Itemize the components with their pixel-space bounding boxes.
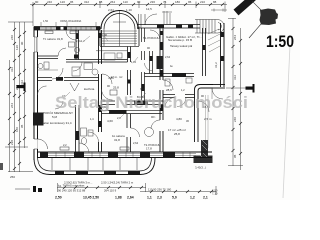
svg-text:hol: hol [140,87,144,91]
svg-text:1,1: 1,1 [147,196,152,200]
svg-text:2,3: 2,3 [157,196,162,200]
terrace edge dark segments [55,171,140,175]
bottom tiny text rows [58,181,218,196]
stairs inside bay [100,31,139,47]
svg-text:31,8: 31,8 [114,138,120,142]
interior vertical wall x161 [160,29,163,153]
svg-text:264: 264 [233,35,237,40]
interior vertical wall x77 lower [76,105,80,152]
svg-text:2,64: 2,64 [133,141,139,145]
svg-text:2,0x1,2: 2,0x1,2 [76,39,85,43]
interior vertical wall x142 upper [142,28,145,101]
svg-text:90: 90 [20,41,24,45]
svg-text:7,10: 7,10 [212,192,218,196]
svg-text:240: 240 [47,0,52,4]
short ticks above right wall [162,11,172,24]
svg-text:90: 90 [35,0,39,4]
stub dim line above stairs [211,9,227,12]
svg-text:312: 312 [233,75,237,80]
svg-text:Tł. salonu 31,8: Tł. salonu 31,8 [43,37,63,41]
dark stamp blob [260,9,279,26]
svg-text:2,50: 2,50 [55,196,62,200]
left wall window [33,37,37,52]
svg-text:75: 75 [163,0,167,4]
svg-text:17,8: 17,8 [146,147,152,151]
chimney block on left wall [33,113,44,126]
svg-text:salon kominkowy 31,4: salon kominkowy 31,4 [42,121,72,125]
left chain numbers (rotated) [10,35,24,179]
svg-text:110 90 236 75 180: 110 90 236 75 180 [148,188,172,192]
fold line right [283,45,290,198]
left section marker [17,83,26,92]
door arcs misc [38,30,161,95]
svg-text:95: 95 [233,154,237,158]
svg-text:25,8: 25,8 [174,132,180,136]
interior vertical wall x151 [150,51,153,74]
svg-text:88: 88 [213,0,217,4]
svg-text:4,80: 4,80 [176,117,182,121]
svg-text:1,4: 1,4 [90,117,94,121]
svg-text:2,5 m: 2,5 m [204,117,212,121]
fireplace niche on x161 wall [157,56,163,69]
svg-text:2,64: 2,64 [165,55,171,59]
counter line left room [38,69,59,71]
bottom-left small marks [33,186,42,192]
svg-text:238: 238 [10,140,14,145]
svg-text:Na terasie p. 15 B: Na terasie p. 15 B [168,38,192,42]
french door V symbol [70,83,79,91]
tick row above top-left wall [41,22,96,26]
svg-text:110: 110 [123,0,128,4]
bath fixtures top-left [69,42,123,76]
door arc on y79 wall [52,68,63,79]
terrace support ticks [52,158,137,170]
main top wall left segment [34,27,100,31]
svg-text:312: 312 [84,0,89,4]
svg-text:95: 95 [188,0,192,4]
left dimension chains [5,22,33,172]
door arc lower right [198,101,209,112]
svg-text:264: 264 [10,103,14,108]
interior vertical wall x128 lower [127,114,131,152]
svg-text:88: 88 [99,0,103,4]
svg-text:31,2: 31,2 [214,62,218,68]
hall landing line [96,50,128,52]
svg-text:2,50 1,34(3,24) TARA 2 m: 2,50 1,34(3,24) TARA 2 m [101,181,134,185]
bath wall y60 [66,60,102,63]
svg-text:lw.: lw. [170,64,173,68]
interior vertical wall x128 upper [128,47,131,96]
right section marker [226,84,255,93]
interior horizontal wall y96 right [163,95,195,98]
svg-text:120: 120 [15,45,19,50]
svg-text:4,60: 4,60 [107,119,113,123]
hall wall y60 segment [102,60,128,63]
lower bath fixtures [81,128,94,144]
right dimension chain [228,18,243,170]
svg-text:kuchnia: kuchnia [84,87,95,91]
svg-text:312: 312 [20,80,24,85]
svg-text:1,88: 1,88 [115,196,122,200]
svg-text:2,1: 2,1 [203,196,208,200]
svg-text:90: 90 [137,0,141,4]
door arc below right wall opening [212,88,223,99]
round table lower middle [145,128,154,137]
svg-text:236: 236 [150,0,155,4]
svg-text:264 110 9: 264 110 9 [104,188,117,192]
svg-text:90 240 120 95 312 88: 90 240 120 95 312 88 [58,188,86,192]
svg-text:264: 264 [110,0,115,4]
top wall window piers (dark) [34,27,100,31]
small interior detail squares (radiators etc.) [45,31,129,150]
svg-text:1,50: 1,50 [43,19,49,23]
svg-text:180: 180 [15,127,19,132]
horizontal wall y85 with rounded corner down to lower-right wall [195,85,226,143]
small bath fixtures right middle [165,78,192,86]
svg-text:12,5: 12,5 [146,7,152,11]
svg-text:5,M: 5,M [52,115,58,119]
landing door arc right of bay [139,14,158,28]
top wall window lines [40,27,96,30]
left edge blob [0,163,3,170]
diagonal hatch between walls [208,29,220,52]
door arcs on x161 wall [163,80,173,90]
black diagonal bar top right [236,0,256,13]
svg-text:240: 240 [233,117,237,122]
top chain numbers [35,0,217,12]
right wing walls [203,23,225,87]
center horizontal wall y101 [102,101,164,105]
svg-text:Tarasy wokoł pół: Tarasy wokoł pół [170,44,193,48]
svg-text:210: 210 [200,0,205,4]
left chain ticks [8,28,26,170]
svg-text:28,6: 28,6 [166,88,172,92]
svg-text:180: 180 [175,0,180,4]
wc fixtures left [38,62,49,69]
left wall door opening [33,139,37,149]
svg-text:250: 250 [10,175,15,179]
svg-text:4,80: 4,80 [108,76,114,80]
svg-text:95: 95 [20,124,24,128]
svg-text:Łg. TARAS mieszkan: Łg. TARAS mieszkan [58,184,85,188]
svg-text:13,45 2,50: 13,45 2,50 [83,196,99,200]
svg-text:120: 120 [60,0,65,4]
bottom inner wall with piers [38,152,213,158]
svg-text:95: 95 [70,0,74,4]
exterior stairs top right [195,20,224,34]
extra tiny annotations [62,33,204,147]
svg-text:Seltag Nieruchomości: Seltag Nieruchomości [55,93,248,112]
terrace outer edge with curved corners [34,156,155,175]
top dimension chain [30,2,227,27]
svg-text:3,45(3...): 3,45(3...) [195,166,206,170]
svg-text:2,64: 2,64 [127,196,134,200]
svg-text:90 l.: 90 l. [151,115,156,119]
interior horizontal wall y75 right [145,74,195,77]
bottom dimension chain A (left) [57,183,146,192]
svg-text:1,10: 1,10 [126,8,132,12]
svg-text:wyl. 90: wyl. 90 [99,33,108,37]
interior horizontal wall y56 left [38,56,59,59]
left exterior wall [34,27,38,161]
top wall right segment [137,25,200,29]
arched bay window [100,11,139,47]
svg-text:1,2: 1,2 [181,88,185,92]
tiny room labels [42,35,212,151]
svg-text:240: 240 [10,35,14,40]
bottom dimension chain B (right) [140,186,216,195]
thin connector lines [252,1,261,10]
light inner wall lines right [206,95,209,148]
svg-text:312: 312 [10,67,14,72]
svg-text:1,2: 1,2 [190,196,195,200]
svg-text:TŁ POKOJU: TŁ POKOJU [143,36,160,40]
interior vertical wall x77 top (bath) [76,30,79,60]
bottom bold text row [55,196,208,200]
top chain tick marks [32,3,224,6]
svg-text:ORNA OKŁADINA: ORNA OKŁADINA [60,19,81,23]
svg-text:5,0: 5,0 [172,196,177,200]
bottom-right hatched wall corner [194,140,213,163]
svg-text:1:50: 1:50 [266,32,294,51]
interior main vertical wall x99 [99,30,102,152]
svg-text:2,0: 2,0 [117,116,121,120]
center horizontal wall y111 with dark segment [102,110,163,113]
door arcs on x99 wall [102,74,112,84]
svg-text:2,2: 2,2 [63,143,67,147]
door arc on y56 wall [58,48,66,56]
svg-text:1,10: 1,10 [131,60,137,64]
svg-text:25,8: 25,8 [113,86,119,90]
interior horizontal wall y79 left [38,78,99,81]
